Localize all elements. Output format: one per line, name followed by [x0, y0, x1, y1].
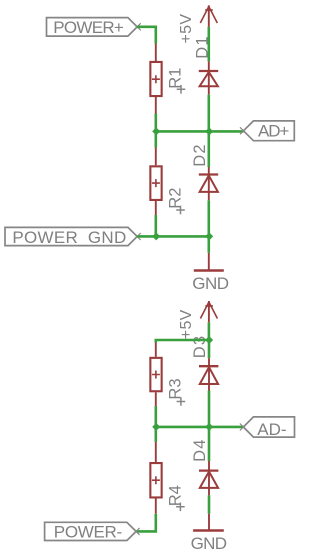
svg-text:+5V: +5V [178, 309, 195, 339]
resistor R3 [150, 343, 161, 407]
svg-text:POWER-: POWER- [54, 522, 122, 541]
wire D4 to GND [208, 495, 211, 513]
junction left top [152, 127, 160, 135]
svg-text:D3: D3 [191, 335, 209, 359]
net label AD+ [240, 121, 294, 141]
junction right top [205, 127, 213, 135]
wire R3 to node row [155, 406, 158, 427]
net label POWER- [45, 522, 140, 541]
wire R1 to node row [155, 114, 158, 132]
R4 value mark [176, 503, 185, 512]
svg-text:AD-: AD- [257, 420, 286, 439]
wire D2 to POWER_GND row [208, 200, 211, 236]
wire POWER_GND row [137, 235, 209, 238]
wire node row to D4 [208, 427, 211, 461]
net label POWER_GND [5, 227, 141, 246]
svg-text:POWER_GND: POWER_GND [12, 228, 126, 247]
junction left AD- [152, 423, 160, 431]
R1 value mark [177, 85, 186, 94]
svg-text:D2: D2 [191, 143, 209, 167]
wire R4 to POWER- [136, 514, 156, 532]
junction left mid [152, 232, 160, 240]
wire +5V to node [208, 322, 211, 340]
supply +5V top [200, 5, 217, 27]
svg-text:R3: R3 [166, 379, 184, 400]
wire node row to AD- [156, 426, 244, 429]
svg-text:D1: D1 [193, 35, 211, 59]
net label POWER+ [47, 18, 141, 37]
net label AD- [240, 417, 295, 439]
svg-text:POWER+: POWER+ [53, 18, 124, 37]
resistor R2 [150, 148, 161, 216]
diode D1 [199, 61, 218, 94]
ground GND bottom [191, 514, 227, 554]
wire node row to AD+ [156, 130, 244, 133]
wire node row to R4 [155, 427, 158, 442]
wire D1 to node row [208, 95, 211, 132]
svg-text:AD+: AD+ [258, 122, 289, 141]
junction right mid [205, 232, 213, 240]
diode D3 [199, 358, 218, 390]
wire +5V node to R3 [156, 340, 209, 343]
diode D4 [199, 461, 218, 495]
wire POWER+ to R1 top [137, 27, 156, 44]
resistor R4 [150, 442, 161, 514]
wire node to R2 [155, 131, 158, 147]
svg-text:GND: GND [191, 534, 227, 553]
resistor R1 [150, 44, 161, 114]
diode D2 [199, 167, 218, 200]
wire POWER_GND row to GND [208, 236, 211, 252]
ground GND top [192, 253, 229, 293]
svg-text:D4: D4 [191, 438, 209, 462]
supply +5V bottom [200, 301, 217, 322]
svg-text:R4: R4 [166, 485, 184, 506]
svg-text:GND: GND [192, 274, 229, 293]
svg-text:R2: R2 [166, 188, 184, 209]
R2 value mark [176, 206, 185, 215]
junction +5V bottom [205, 336, 213, 344]
wire D3 to node row [208, 391, 211, 427]
wire R2 to POWER_GND row [155, 215, 158, 236]
wire +5V to D1 [208, 27, 211, 62]
junction right AD- [205, 423, 213, 431]
R3 value mark [177, 397, 186, 406]
wire +5V node to D3 [208, 340, 211, 358]
wire node row to D2 [208, 131, 211, 167]
